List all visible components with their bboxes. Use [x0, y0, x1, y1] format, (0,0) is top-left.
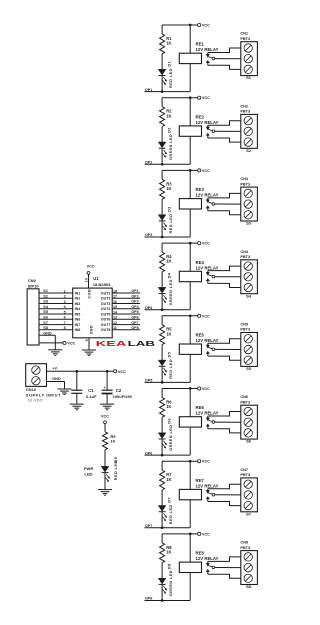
svg-text:KEA: KEA — [96, 340, 127, 348]
svg-text:D5: D5 — [168, 352, 172, 358]
svg-text:IN6: IN6 — [75, 318, 81, 322]
svg-text:100uF/25V: 100uF/25V — [113, 394, 133, 399]
wire: resistor branch channel 2 — [161, 98, 163, 107]
svg-text:12: 12 — [113, 321, 117, 325]
svg-text:RE5: RE5 — [196, 333, 205, 338]
svg-text:OP2: OP2 — [131, 295, 138, 299]
power symbol VCC channel 8 — [198, 532, 201, 535]
LED D2 GREEN LED — [158, 142, 166, 148]
CN5 screw 3 — [244, 356, 252, 364]
svg-text:IN2: IN2 — [75, 297, 81, 301]
CN7 screw 2 — [244, 491, 252, 499]
connector CN6 PBT3 screw terminal — [241, 405, 258, 439]
wire: GND from CN10 — [47, 381, 65, 383]
op-amp driver IC U1 ULN2803 body — [73, 288, 113, 338]
svg-text:10: 10 — [85, 278, 89, 283]
junction node OP2 at LED — [161, 163, 164, 166]
wire: VCC rail top of channel 8 — [162, 533, 198, 535]
resistor R2 1K — [160, 107, 165, 127]
wire: resistor to LED channel 7 — [161, 490, 163, 506]
svg-text:OP3: OP3 — [131, 300, 138, 304]
wire: VCC rail top of channel 2 — [162, 97, 198, 99]
wire: relay coil bottom to OP2 — [189, 136, 191, 164]
svg-text:GND: GND — [43, 331, 52, 335]
wire: relay RE4 common to terminal 2 — [215, 276, 241, 278]
wire: U1 GND pin to ground — [88, 338, 90, 350]
CN4 screw 2 — [244, 273, 252, 281]
svg-text:12V RELAY: 12V RELAY — [196, 193, 219, 198]
svg-text:PBT3: PBT3 — [240, 328, 250, 332]
connector CN1 PBT3 screw terminal — [241, 42, 258, 76]
LED D9 RED LED (PWR LED) — [101, 466, 109, 472]
svg-text:VCC: VCC — [202, 314, 210, 318]
wire: relay coil bottom to OP1 — [189, 64, 191, 92]
relay RE3 coil box 12V RELAY — [179, 199, 201, 209]
LED D8 GREEN LED — [158, 578, 166, 584]
svg-text:RE4: RE4 — [196, 260, 205, 265]
svg-text:PBT3: PBT3 — [240, 255, 250, 259]
wire: VCC to R9 — [104, 424, 106, 432]
LED D4 GREEN LED — [158, 287, 166, 293]
svg-text:2: 2 — [64, 295, 66, 299]
CN1 screw 3 — [244, 65, 252, 73]
svg-text:5: 5 — [64, 310, 66, 314]
svg-text:S6: S6 — [43, 316, 48, 320]
svg-text:OP4: OP4 — [131, 305, 138, 309]
wire: relay RE2 common to terminal 2 — [215, 130, 241, 132]
wire: R9 to D9 — [104, 450, 106, 467]
svg-text:GND: GND — [52, 377, 61, 381]
svg-text:COM: COM — [88, 289, 92, 299]
connector CN4 PBT3 screw terminal — [241, 260, 258, 294]
svg-text:CN3: CN3 — [240, 177, 248, 181]
svg-text:U1: U1 — [93, 276, 99, 281]
svg-text:12V RELAY: 12V RELAY — [196, 265, 219, 270]
svg-text:PBT3: PBT3 — [240, 182, 250, 186]
svg-text:D2: D2 — [168, 127, 172, 133]
power symbol VCC at CN9 — [63, 341, 66, 344]
relay RE1 coil box 12V RELAY — [179, 53, 201, 63]
wire: C2 to ground — [106, 394, 108, 404]
svg-text:D6: D6 — [168, 418, 172, 424]
svg-text:OP4: OP4 — [145, 306, 153, 310]
relay RE2 NC contact and wire to terminal 3 — [206, 133, 209, 135]
svg-text:16: 16 — [113, 300, 117, 304]
svg-text:S3: S3 — [246, 221, 252, 226]
wire: resistor to LED channel 5 — [161, 345, 163, 361]
svg-text:VCC: VCC — [202, 387, 210, 391]
wire: resistor branch channel 6 — [161, 389, 163, 398]
wire: GND stem — [64, 382, 66, 389]
svg-text:9: 9 — [85, 339, 89, 341]
wire: +V rail — [47, 370, 114, 372]
svg-text:4: 4 — [64, 305, 66, 309]
svg-text:D4: D4 — [168, 272, 172, 278]
wire: LED cathode down channel 6 — [161, 439, 163, 455]
svg-text:PBT3: PBT3 — [240, 37, 250, 41]
wire: VCC rail top of channel 6 — [162, 388, 198, 390]
svg-text:S2: S2 — [246, 148, 252, 153]
connector CN5 PBT3 screw terminal — [241, 333, 258, 367]
wire: net OP2 from U1 pin 17 — [112, 297, 140, 299]
CN2 screw 1 — [244, 117, 252, 125]
relay RE1 common armature pivot — [212, 57, 215, 60]
wire: VCC rail top of channel 5 — [162, 315, 198, 317]
power symbol VCC channel 2 — [198, 96, 201, 99]
svg-text:S1: S1 — [246, 75, 252, 80]
wire: resistor to LED channel 8 — [161, 563, 163, 579]
relay RE4 coil box 12V RELAY — [179, 271, 201, 281]
svg-text:VCC: VCC — [202, 532, 210, 536]
relay RE7 NO contact and wire to terminal 1 — [206, 490, 209, 493]
wire: relay coil from VCC junction channel 3 — [189, 170, 191, 198]
wire: net OP1 horizontal — [145, 91, 191, 93]
wire: resistor branch channel 5 — [161, 316, 163, 325]
svg-text:OP7: OP7 — [131, 321, 138, 325]
junction on VCC rail channel 7 — [189, 460, 192, 463]
svg-text:3: 3 — [64, 300, 66, 304]
svg-text:S2: S2 — [43, 295, 48, 299]
svg-text:C1: C1 — [88, 388, 94, 393]
LED D1 RED LED — [158, 69, 166, 75]
CN6 screw 2 — [244, 418, 252, 426]
ground symbol at CN9 — [48, 349, 62, 351]
svg-text:S6: S6 — [246, 439, 252, 444]
svg-text:IN8: IN8 — [75, 328, 81, 332]
svg-text:VCC: VCC — [118, 370, 126, 374]
CN10 screw 2 — [32, 377, 40, 385]
wire: LED cathode down channel 4 — [161, 294, 163, 310]
wire: relay coil from VCC junction channel 8 — [189, 534, 191, 562]
connector CN10 screw terminal SUPPLY INPUT — [26, 364, 47, 387]
svg-text:1K: 1K — [166, 550, 171, 555]
svg-text:1K: 1K — [166, 331, 171, 336]
svg-text:VCC: VCC — [87, 264, 95, 268]
svg-text:1K: 1K — [166, 404, 171, 409]
svg-text:OUT1: OUT1 — [101, 291, 111, 295]
svg-text:VCC: VCC — [202, 24, 210, 28]
wire: net S1 from CN9 to U1 pin 1 — [39, 292, 73, 294]
wire: relay coil bottom to OP5 — [189, 354, 191, 382]
svg-text:LAB: LAB — [128, 340, 155, 348]
wire: resistor branch channel 3 — [161, 170, 163, 179]
svg-text:+V: +V — [52, 367, 57, 371]
connector CN8 PBT3 screw terminal — [241, 551, 258, 585]
CN6 screw 3 — [244, 429, 252, 437]
resistor R3 1K — [160, 179, 165, 199]
wire: net OP6 from U1 pin 13 — [112, 318, 140, 320]
svg-text:LED: LED — [85, 472, 93, 477]
relay RE2 NO contact and wire to terminal 1 — [206, 127, 209, 130]
CN8 screw 2 — [244, 563, 252, 571]
CN6 screw 1 — [244, 407, 252, 415]
resistor R6 1K — [160, 398, 165, 418]
wire: net OP8 horizontal — [145, 600, 191, 602]
wire: C1 to ground — [76, 393, 78, 404]
svg-text:CN6: CN6 — [240, 395, 248, 399]
wire: resistor to LED channel 4 — [161, 272, 163, 288]
relay RE8 coil box 12V RELAY — [179, 562, 201, 572]
svg-text:PBT3: PBT3 — [240, 400, 250, 404]
resistor R1 1K — [160, 34, 165, 54]
wire: D9 cathode to ground — [104, 473, 106, 490]
wire: resistor to LED channel 6 — [161, 417, 163, 433]
svg-text:CN2: CN2 — [240, 104, 248, 108]
junction on VCC rail channel 3 — [189, 169, 192, 172]
svg-text:15: 15 — [113, 305, 117, 309]
wire: net S8 from CN9 to U1 pin 8 — [39, 329, 73, 331]
wire: resistor to LED channel 1 — [161, 54, 163, 70]
svg-text:12V RELAY: 12V RELAY — [196, 120, 219, 125]
junction on VCC rail channel 6 — [189, 387, 192, 390]
svg-text:OP7: OP7 — [145, 524, 152, 528]
wire: relay coil from VCC junction channel 1 — [189, 25, 191, 53]
wire: VCC rail top of channel 4 — [162, 242, 198, 244]
svg-text:VCC: VCC — [202, 242, 210, 246]
svg-text:GREEN LED: GREEN LED — [169, 570, 173, 596]
wire: relay coil from VCC junction channel 5 — [189, 316, 191, 344]
wire: relay coil bottom to OP4 — [189, 282, 191, 310]
relay RE8 NC contact and wire to terminal 3 — [206, 569, 209, 571]
svg-text:1K: 1K — [166, 41, 171, 46]
relay RE1 NC contact and wire to terminal 3 — [206, 60, 209, 62]
svg-text:D1: D1 — [168, 61, 172, 67]
junction on VCC rail channel 2 — [189, 96, 192, 99]
svg-text:IN3: IN3 — [75, 302, 81, 306]
svg-text:RE7: RE7 — [196, 478, 205, 483]
svg-text:OUT3: OUT3 — [101, 302, 111, 306]
svg-text:11: 11 — [113, 326, 117, 330]
wire: relay RE8 common to terminal 2 — [215, 567, 241, 569]
wire: relay RE3 common to terminal 2 — [215, 203, 241, 205]
CN3 screw 1 — [244, 189, 252, 197]
wire: VCC rail top of channel 3 — [162, 169, 198, 171]
junction on VCC rail channel 8 — [189, 533, 192, 536]
wire: relay RE6 common to terminal 2 — [215, 421, 241, 423]
CN10 screw 1 — [32, 366, 40, 374]
svg-text:IN5: IN5 — [75, 312, 81, 316]
wire: relay coil from VCC junction channel 2 — [189, 98, 191, 126]
wire: net OP6 horizontal — [145, 454, 191, 456]
relay RE1 NO contact and wire to terminal 1 — [206, 54, 209, 57]
connector CN7 PBT3 screw terminal — [241, 478, 258, 512]
wire: relay coil bottom to OP3 — [189, 209, 191, 237]
svg-text:OUT4: OUT4 — [101, 307, 111, 311]
relay RE7 common armature pivot — [212, 493, 215, 496]
svg-text:SIP10: SIP10 — [28, 283, 40, 288]
wire: relay coil from VCC junction channel 4 — [189, 243, 191, 271]
CN2 screw 2 — [244, 127, 252, 135]
svg-text:CN4: CN4 — [240, 250, 248, 254]
ground symbol at C1 — [70, 403, 84, 405]
svg-text:1K: 1K — [166, 113, 171, 118]
wire: relay coil bottom to OP6 — [189, 427, 191, 455]
svg-text:RE2: RE2 — [196, 114, 205, 119]
svg-text:PBT3: PBT3 — [240, 473, 250, 477]
svg-text:D8: D8 — [168, 563, 172, 569]
junction node OP3 at LED — [161, 236, 164, 239]
CN4 screw 3 — [244, 283, 252, 291]
svg-text:1K: 1K — [166, 186, 171, 191]
svg-text:RED LED: RED LED — [114, 460, 118, 480]
svg-text:12V RELAY: 12V RELAY — [196, 411, 219, 416]
LED D5 RED LED — [158, 360, 166, 366]
svg-text:OUT5: OUT5 — [101, 312, 111, 316]
svg-text:OP8: OP8 — [145, 597, 152, 601]
wire: relay coil from VCC junction channel 7 — [189, 461, 191, 489]
svg-text:CN9: CN9 — [28, 278, 37, 283]
wire: relay RE7 common to terminal 2 — [215, 494, 241, 496]
svg-text:OP1: OP1 — [131, 289, 138, 293]
ground symbol at C2 — [100, 403, 114, 405]
wire: net OP5 horizontal — [145, 381, 191, 383]
CN7 screw 1 — [244, 480, 252, 488]
svg-text:12V RELAY: 12V RELAY — [196, 556, 219, 561]
CN8 screw 3 — [244, 574, 252, 582]
ground symbol at CN10 — [58, 388, 72, 390]
relay RE2 common armature pivot — [212, 130, 215, 133]
wire: LED cathode down channel 7 — [161, 512, 163, 528]
junction node OP8 at LED — [161, 599, 164, 602]
relay RE6 NO contact and wire to terminal 1 — [206, 418, 209, 421]
svg-text:1: 1 — [64, 289, 66, 293]
wire: net S6 from CN9 to U1 pin 6 — [39, 318, 73, 320]
svg-text:OUT8: OUT8 — [101, 328, 111, 332]
relay RE3 NC contact and wire to terminal 3 — [206, 206, 209, 208]
relay RE5 common armature pivot — [212, 348, 215, 351]
CN5 screw 2 — [244, 345, 252, 353]
svg-text:VCC: VCC — [101, 414, 109, 418]
relay RE8 NO contact and wire to terminal 1 — [206, 563, 209, 566]
power symbol VCC channel 5 — [198, 314, 201, 317]
svg-text:OP8: OP8 — [131, 326, 138, 330]
svg-text:6: 6 — [64, 316, 66, 320]
wire: net OP7 from U1 pin 12 — [112, 324, 140, 326]
svg-text:RED LED: RED LED — [169, 359, 173, 379]
resistor R8 1K — [160, 543, 165, 563]
svg-text:OP3: OP3 — [145, 233, 152, 237]
relay RE4 NC contact and wire to terminal 3 — [206, 279, 209, 281]
LED D6 GREEN LED — [158, 433, 166, 439]
svg-text:VCC: VCC — [202, 169, 210, 173]
relay RE3 common armature pivot — [212, 203, 215, 206]
svg-text:IN7: IN7 — [75, 323, 81, 327]
svg-text:CN1: CN1 — [240, 32, 248, 36]
svg-text:12 VDC: 12 VDC — [28, 398, 43, 402]
relay RE4 common armature pivot — [212, 275, 215, 278]
svg-text:S3: S3 — [43, 300, 48, 304]
wire: LED cathode down channel 2 — [161, 149, 163, 165]
svg-text:S5: S5 — [43, 310, 48, 314]
svg-text:IN1: IN1 — [75, 291, 81, 295]
CN1 screw 2 — [244, 55, 252, 63]
junction at C1 — [75, 370, 78, 373]
wire: net OP4 horizontal — [145, 309, 191, 311]
wire: LED cathode down channel 8 — [161, 585, 163, 601]
resistor R5 1K — [160, 325, 165, 345]
power symbol VCC channel 1 — [198, 23, 201, 26]
wire: VCC rail top of channel 1 — [162, 24, 198, 26]
svg-text:RED LED: RED LED — [169, 504, 173, 524]
svg-text:+: + — [104, 386, 106, 390]
svg-text:CN8: CN8 — [240, 541, 248, 545]
wire: net OP7 horizontal — [145, 527, 191, 529]
svg-text:13: 13 — [113, 316, 117, 320]
svg-text:IN4: IN4 — [75, 307, 81, 311]
wire: CN9 pin10 to VCC — [39, 342, 63, 344]
wire: resistor branch channel 4 — [161, 243, 163, 252]
junction node OP7 at LED — [161, 526, 164, 529]
CN7 screw 3 — [244, 501, 252, 509]
svg-text:OUT6: OUT6 — [101, 318, 111, 322]
svg-text:7: 7 — [64, 321, 66, 325]
svg-text:CN7: CN7 — [240, 468, 248, 472]
svg-text:S5: S5 — [246, 366, 252, 371]
resistor R7 1K — [160, 470, 165, 490]
wire: LED cathode down channel 1 — [161, 76, 163, 92]
resistor R9 1K — [103, 432, 108, 450]
svg-text:S8: S8 — [43, 326, 48, 330]
junction node OP1 at LED — [161, 90, 164, 93]
connector CN3 PBT3 screw terminal — [241, 187, 258, 221]
power symbol VCC channel 3 — [198, 169, 201, 172]
power symbol VCC channel 6 — [198, 387, 201, 390]
wire: resistor to LED channel 3 — [161, 199, 163, 215]
wire: net OP1 from U1 pin 18 — [112, 292, 140, 294]
relay RE8 common armature pivot — [212, 566, 215, 569]
wire: net OP3 from U1 pin 16 — [112, 303, 140, 305]
svg-text:S7: S7 — [246, 511, 252, 516]
relay RE7 NC contact and wire to terminal 3 — [206, 497, 209, 499]
svg-text:RE1: RE1 — [196, 42, 205, 47]
svg-text:18: 18 — [113, 289, 117, 293]
junction on VCC rail channel 4 — [189, 242, 192, 245]
svg-text:1K: 1K — [166, 259, 171, 264]
svg-text:OP5: OP5 — [145, 379, 152, 383]
wire: VCC to U1 COM pin 10 — [88, 274, 90, 288]
wire: relay coil bottom to OP7 — [189, 500, 191, 528]
svg-text:17: 17 — [113, 295, 117, 299]
junction node OP6 at LED — [161, 454, 164, 457]
wire: relay coil from VCC junction channel 6 — [189, 389, 191, 417]
wire: LED cathode down channel 3 — [161, 221, 163, 237]
svg-text:SUPPLY INPUT: SUPPLY INPUT — [26, 392, 61, 397]
svg-text:1K: 1K — [110, 438, 115, 443]
wire: GND stem down — [54, 335, 56, 350]
relay RE4 NO contact and wire to terminal 1 — [206, 272, 209, 275]
svg-text:GREEN LED: GREEN LED — [169, 279, 173, 305]
wire: resistor to LED channel 2 — [161, 127, 163, 143]
wire: GND net from CN9 — [39, 334, 55, 336]
wire: net S3 from CN9 to U1 pin 3 — [39, 303, 73, 305]
svg-text:VCC: VCC — [67, 341, 75, 345]
wire: VCC rail top of channel 7 — [162, 460, 198, 462]
svg-text:RE8: RE8 — [196, 551, 205, 556]
svg-text:GND: GND — [90, 325, 94, 334]
power symbol VCC on +V rail — [114, 370, 117, 373]
svg-text:CN5: CN5 — [240, 323, 248, 327]
junction on VCC rail channel 1 — [189, 24, 192, 27]
svg-text:12V RELAY: 12V RELAY — [196, 338, 219, 343]
svg-text:C2: C2 — [116, 388, 122, 393]
relay RE6 common armature pivot — [212, 421, 215, 424]
svg-text:0.1uF: 0.1uF — [86, 394, 97, 399]
CN4 screw 1 — [244, 262, 252, 270]
wire: net S2 from CN9 to U1 pin 2 — [39, 297, 73, 299]
relay RE6 NC contact and wire to terminal 3 — [206, 424, 209, 426]
connector CN9 SIP10 — [27, 289, 39, 345]
CN3 screw 2 — [244, 200, 252, 208]
